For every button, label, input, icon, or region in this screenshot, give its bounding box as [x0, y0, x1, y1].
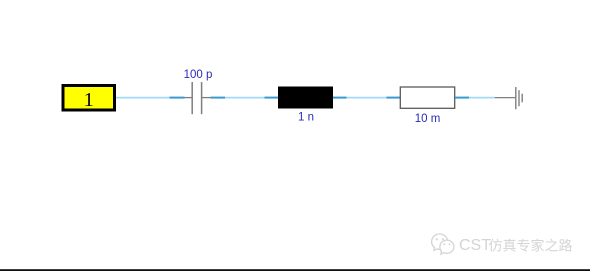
svg-text:10 m: 10 m: [415, 113, 441, 125]
svg-text:1: 1: [84, 89, 94, 111]
wire: capacitor C1 to inductor L1 (light blue segment): [225, 97, 265, 99]
capacitor C1 plates: [192, 82, 201, 114]
wire: port 1 to capacitor C1 (light blue segment): [116, 97, 170, 99]
wire: capacitor C1 right lead (gray stub): [202, 97, 211, 99]
wire: inductor L1 to resistor R1 (light blue segment): [347, 97, 387, 99]
inductor L1 body (black box): [278, 87, 333, 109]
watermark text: CST: [459, 237, 491, 254]
bottom border line: [0, 269, 590, 271]
port 1 (yellow external port box): [63, 86, 115, 112]
wire: inductor L1 left pin (dark blue segment): [265, 97, 279, 99]
wire: resistor R1 right pin (dark blue segment): [455, 97, 469, 99]
wire: inductor L1 right pin (dark blue segment): [333, 97, 347, 99]
ground symbol (three bars): [516, 87, 522, 109]
capacitor C1 value label 100 p: [184, 69, 213, 81]
inductor L1 value label 1 n: [298, 111, 314, 123]
wire: capacitor C1 right pin (dark blue segment): [211, 97, 226, 99]
wire: capacitor C1 left pin (dark blue segment): [170, 97, 185, 99]
svg-text:CST: CST: [459, 237, 491, 254]
watermark text: 仿真专家之路 (drawn glyph paths): [489, 239, 572, 252]
wire: resistor R1 to ground (light blue segment): [469, 97, 495, 99]
svg-text:1 n: 1 n: [298, 111, 314, 123]
wire: resistor R1 left pin (dark blue segment): [387, 97, 401, 99]
wire: capacitor C1 left lead (gray stub): [185, 97, 193, 99]
wire: ground lead (gray segment): [495, 97, 516, 99]
resistor R1 body (white box): [400, 87, 454, 108]
svg-text:100 p: 100 p: [184, 69, 213, 81]
watermark: WeChat icon: [432, 234, 454, 254]
resistor R1 value label 10 m: [415, 113, 441, 125]
